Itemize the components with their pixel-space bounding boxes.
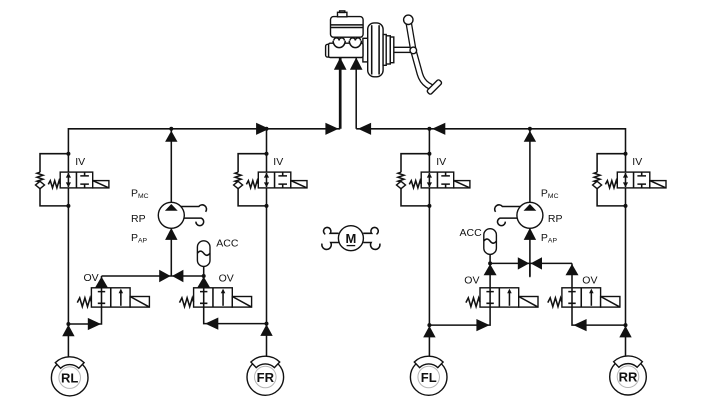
brake pedal pad <box>426 79 442 95</box>
solenoid actuator of IV4 <box>650 181 666 188</box>
return spring of IV3 <box>409 181 421 188</box>
svg-text:IV: IV <box>75 156 85 168</box>
flow arrow into master cylinder primary port (up) <box>334 58 347 70</box>
flow arrow up RL branch <box>62 325 74 337</box>
check valve spring in IV3 bypass <box>398 172 404 182</box>
svg-text:IV: IV <box>273 156 283 168</box>
solenoid valve OV2 body <box>194 288 233 307</box>
solenoid actuator of IV3 <box>454 181 470 188</box>
wire: line from bus down to pump RP1 <box>170 129 172 203</box>
solenoid actuator of OV2 <box>232 297 251 308</box>
junction node at top of IV4 bypass <box>624 152 628 156</box>
wire: bypass loop of IV4 <box>597 154 625 206</box>
svg-text:RP: RP <box>548 213 563 225</box>
svg-text:PMC: PMC <box>541 187 559 200</box>
wheel brake RR shoe band <box>614 356 643 367</box>
wheel brake FR shoe band <box>251 356 280 367</box>
master cylinder body <box>329 43 363 57</box>
junction node at top of IV1 bypass <box>66 152 70 156</box>
junction node RL branch / OV1 return <box>66 322 70 326</box>
wire: bypass loop of IV1 <box>40 154 68 206</box>
pump RP1 flow triangle <box>165 204 178 211</box>
svg-text:ACC: ACC <box>216 238 239 250</box>
check-valve pair at pump RP2 suction junction <box>518 257 529 269</box>
wire: front-left wheel branch through IV3 <box>428 129 430 359</box>
junction node left bus / FR branch <box>265 127 269 131</box>
solenoid actuator of IV1 <box>93 181 109 188</box>
brake fluid reservoir <box>331 17 364 38</box>
return spring of OV3 <box>466 298 480 307</box>
flow arrow on pump RP2 outlet line (up) <box>524 131 536 142</box>
solenoid actuator of OV4 <box>601 297 620 308</box>
junction node at top of IV3 bypass <box>427 152 431 156</box>
flow arrow RR to OV4 (left) <box>573 319 586 331</box>
junction node gallery / ACC1 <box>202 274 206 278</box>
flow arrow on right bus toward master cylinder <box>358 123 371 135</box>
flow arrow up FR branch <box>260 324 272 336</box>
booster mounting plate <box>363 38 368 62</box>
flow arrow into OV3 (up) <box>484 264 497 275</box>
return spring of OV2 <box>180 298 194 307</box>
solenoid actuator of IV2 <box>291 181 307 188</box>
return spring of OV1 <box>77 298 91 307</box>
junction node gallery / ACC2 <box>488 261 492 265</box>
wheel brake RL circle <box>51 359 88 396</box>
junction node left bus / pump RP1 <box>169 127 173 131</box>
wheel brake FR circle <box>247 359 284 396</box>
accumulator ACC1 <box>197 241 210 267</box>
svg-text:RP: RP <box>131 213 146 225</box>
solenoid valve IV1 body <box>60 172 92 188</box>
wheel brake RL inner ring <box>59 367 81 389</box>
return spring of IV2 <box>246 181 258 188</box>
brake pedal top pin <box>404 15 413 24</box>
solenoid valve IV2 body <box>258 172 291 188</box>
svg-text:PAP: PAP <box>541 232 558 245</box>
svg-text:PAP: PAP <box>131 232 148 245</box>
svg-text:RL: RL <box>61 370 78 385</box>
flow arrow FL to OV3 (right) <box>476 319 489 331</box>
drive coupling of pump RP1 <box>181 205 207 226</box>
junction node at bottom of IV2 bypass <box>265 204 269 208</box>
svg-text:OV: OV <box>84 272 99 284</box>
drive coupling of pump RP2 <box>495 205 521 226</box>
wire: OV3 upper line <box>489 263 491 288</box>
wheel brake FL circle <box>410 359 447 396</box>
wheel brake RR circle <box>610 358 647 395</box>
booster flange ring 1 <box>383 35 386 66</box>
solenoid valve IV3 body <box>421 172 454 188</box>
wire: OV1 upper line <box>101 276 103 288</box>
wire: right circuit supply bus <box>356 129 625 359</box>
wire: accumulator ACC1 stub <box>203 266 205 277</box>
flow arrow FR to OV2 (left) <box>205 318 218 330</box>
svg-text:ACC: ACC <box>460 227 483 239</box>
solenoid valve OV3 body <box>480 288 519 307</box>
flow arrow into master cylinder secondary port (up) <box>350 58 363 70</box>
brake pedal arm <box>408 21 433 89</box>
wire: master cylinder primary line (thick) <box>339 58 342 129</box>
brake pedal pivot pin <box>410 47 417 54</box>
flow arrow on right bus at FL branch <box>432 123 445 135</box>
wire: left circuit low pressure gallery <box>102 275 204 277</box>
wire: line from bus down to pump RP2 <box>529 129 531 203</box>
flow arrow into pump RP1 (up) <box>165 228 177 240</box>
return spring of IV1 <box>48 181 60 188</box>
svg-text:FR: FR <box>257 370 275 385</box>
check-valve pair at pump RP1 suction junction <box>159 270 170 282</box>
flow arrow RL to OV1 (right) <box>88 318 101 330</box>
return spring of OV4 <box>548 298 562 307</box>
flow arrow up RR branch <box>619 326 631 338</box>
junction node right bus / FL branch <box>427 127 431 131</box>
pump RP1 circle <box>158 202 184 228</box>
wire: pump RP1 suction line <box>170 228 172 276</box>
wire: OV2 upper line <box>203 276 205 288</box>
check valve spring in IV1 bypass <box>37 172 43 182</box>
junction node RR branch / OV4 return <box>624 323 628 327</box>
pump RP2 flow triangle <box>524 204 537 211</box>
solenoid valve OV1 body <box>91 288 130 307</box>
wire: rear-left wheel branch through IV1 <box>266 129 268 359</box>
svg-text:FL: FL <box>421 370 437 385</box>
brake booster body <box>368 23 383 77</box>
flow arrow into OV1 (up) <box>95 277 108 288</box>
master cylinder reservoir port bumps <box>334 38 361 41</box>
master cylinder reservoir port domes <box>333 41 361 48</box>
wire: OV4 upper line <box>571 263 573 288</box>
booster flange ring 2 <box>386 36 390 64</box>
flow arrow up FL branch <box>423 326 435 338</box>
solenoid actuator of OV1 <box>130 297 149 308</box>
check valve of IV3 bypass <box>397 181 406 188</box>
check valve spring in IV2 bypass <box>235 172 241 182</box>
junction node at top of IV2 bypass <box>265 152 269 156</box>
reservoir filler cap <box>338 12 347 16</box>
flow arrow on left bus toward master cylinder <box>325 123 338 135</box>
check valve of IV4 bypass <box>593 181 602 188</box>
wheel brake RR inner ring <box>617 366 639 388</box>
flow arrow into OV4 (up) <box>566 264 579 275</box>
wire: bypass loop of IV3 <box>401 154 429 206</box>
wire: OV2 return line to FR branch <box>204 307 267 324</box>
svg-text:OV: OV <box>464 275 479 287</box>
booster flange ring 3 <box>390 37 394 63</box>
svg-text:IV: IV <box>436 156 446 168</box>
flow arrow on left bus toward master cylinder at FR branch <box>256 123 269 135</box>
check valve of IV1 bypass <box>36 181 45 188</box>
flow arrow into pump RP2 (up) <box>524 228 536 240</box>
wire: bypass loop of IV2 <box>238 154 266 206</box>
junction node at bottom of IV1 bypass <box>66 204 70 208</box>
check valve of IV2 bypass <box>234 181 243 188</box>
junction node at bottom of IV3 bypass <box>427 204 431 208</box>
junction node FL branch / OV3 return <box>427 323 431 327</box>
junction node at bottom of IV4 bypass <box>624 204 628 208</box>
wire: left circuit supply bus <box>68 129 340 359</box>
wire: accumulator ACC2 stub <box>489 253 491 263</box>
wheel brake RL shoe band <box>55 357 84 368</box>
svg-text:OV: OV <box>219 272 234 284</box>
wire: pump RP2 suction stub below gallery <box>529 263 531 277</box>
return spring of IV4 <box>605 181 617 188</box>
solenoid valve IV4 body <box>617 172 650 188</box>
junction node FR branch / OV2 return <box>265 322 269 326</box>
check valve spring in IV4 bypass <box>594 172 600 182</box>
pump RP2 circle <box>517 202 543 228</box>
solenoid actuator of OV3 <box>519 297 538 308</box>
master cylinder end cap <box>326 44 332 57</box>
solenoid valve OV4 body <box>562 288 601 307</box>
wire: OV3 return line to FL branch <box>429 307 490 325</box>
flow arrow into OV2 (up) <box>197 277 210 288</box>
svg-text:IV: IV <box>632 156 642 168</box>
wire: master cylinder secondary line <box>355 58 357 129</box>
wire: OV1 return line to RL branch <box>68 307 101 324</box>
wheel brake FL shoe band <box>414 356 443 367</box>
wire: pump RP2 suction line <box>529 228 531 276</box>
flow arrow on pump RP1 outlet line (up) <box>165 131 177 142</box>
wire: OV4 return line to RR branch <box>572 307 626 325</box>
master cylinder push rod <box>394 47 411 52</box>
wheel brake FL inner ring <box>418 366 440 388</box>
wheel brake FR inner ring <box>254 366 276 388</box>
electric motor M <box>322 226 380 251</box>
junction node right bus / pump RP2 <box>528 127 532 131</box>
svg-text:M: M <box>345 231 356 246</box>
svg-text:PMC: PMC <box>131 187 149 200</box>
wire: right circuit low pressure gallery <box>490 262 572 264</box>
accumulator ACC2 <box>484 229 497 255</box>
svg-text:RR: RR <box>619 370 638 385</box>
svg-text:OV: OV <box>582 275 597 287</box>
